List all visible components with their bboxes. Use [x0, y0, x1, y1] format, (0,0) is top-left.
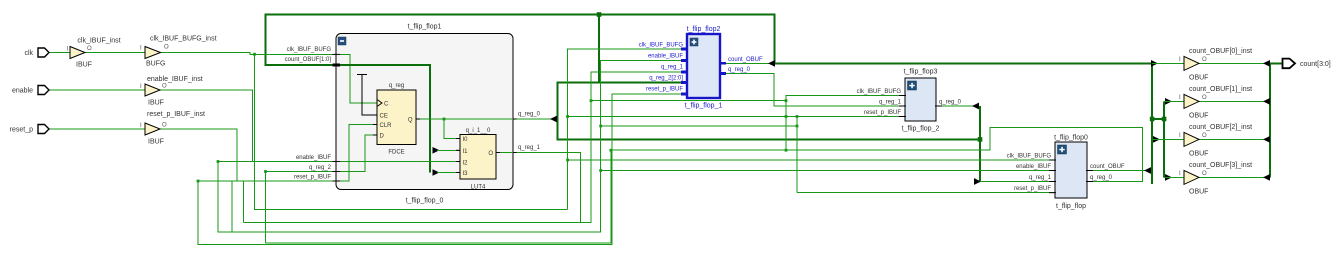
junction riser 797: [796, 115, 799, 118]
svg-text:Q: Q: [408, 118, 413, 124]
wire Q to output and I0: [416, 118, 513, 120]
wire tap to OBUF3: [1164, 176, 1184, 178]
wire count_OBUF of flop2: [720, 62, 770, 64]
svg-text:q_reg_0: q_reg_0: [939, 100, 962, 106]
junction enable: [217, 160, 220, 163]
arrow bus into t_flip_flop0 q_reg_1: [974, 178, 1055, 185]
net OBUF input taps: [1151, 60, 1184, 181]
expand icon: [908, 81, 917, 90]
wire tap to OBUF1: [1164, 100, 1184, 102]
svg-text:I0: I0: [463, 137, 469, 143]
svg-text:clk_IBUF_BUFG: clk_IBUF_BUFG: [1007, 154, 1052, 160]
svg-text:FDCE: FDCE: [388, 150, 404, 156]
junction enable riser for flop0: [599, 169, 602, 172]
svg-text:OBUF: OBUF: [1189, 189, 1208, 196]
svg-text:q_reg_0: q_reg_0: [1090, 175, 1113, 181]
svg-text:OBUF: OBUF: [1189, 113, 1208, 120]
buffer clk_IBUF_BUFG_inst (BUFG): [140, 36, 217, 68]
hierarchical cell t_flip_flop3: [857, 69, 962, 133]
junction A-B connector: [1150, 117, 1155, 122]
svg-text:count_OBUF: count_OBUF: [728, 57, 763, 63]
svg-text:q_reg_1: q_reg_1: [1029, 175, 1052, 181]
net reset_p wires: [49, 94, 687, 245]
port clk: [24, 48, 49, 57]
svg-text:clk: clk: [24, 50, 33, 57]
svg-text:O: O: [1202, 171, 1207, 177]
bus count_OBUF right drop: [775, 14, 1151, 64]
junction riser 797 row 126: [796, 125, 799, 128]
wire OBUF0 out: [1199, 62, 1266, 64]
svg-text:reset_p_IBUF: reset_p_IBUF: [294, 175, 331, 181]
svg-text:reset_p_IBUF_inst: reset_p_IBUF_inst: [147, 111, 205, 118]
svg-text:O: O: [87, 46, 92, 52]
svg-text:q_reg: q_reg: [389, 83, 404, 89]
svg-text:reset_p_IBUF: reset_p_IBUF: [864, 110, 901, 116]
wire enable row stub left: [218, 161, 252, 163]
net clk_IBUF_BUFG : top trunk buses: [266, 12, 1284, 184]
arrow OBUF1 out: [1263, 98, 1270, 105]
svg-text:OBUF: OBUF: [1189, 151, 1208, 158]
buffer enable_IBUF_inst (IBUF): [140, 76, 203, 107]
svg-text:count_OBUF[3]_inst: count_OBUF[3]_inst: [1189, 162, 1252, 169]
arrow q_reg_0 flop3 into bus: [972, 103, 979, 110]
arrow tap I1: [433, 147, 440, 154]
wire clk IBUF to BUFG: [85, 52, 145, 54]
junction q_reg_1 riser row 100.7: [590, 99, 593, 102]
wire tap to I1: [437, 149, 460, 151]
svg-text:enable_IBUF: enable_IBUF: [1016, 164, 1051, 170]
wire row to t_flip_flop0 clk pin: [568, 159, 1055, 161]
arrow OBUF3 out: [1263, 174, 1270, 181]
net t_flip_flop0 count_OBUF out: [1087, 167, 1151, 174]
wire reset IBUF out into t_flip_flop1: [160, 129, 336, 181]
svg-text:CLR: CLR: [380, 123, 393, 129]
junction riser 786 on reset row: [785, 115, 788, 118]
wire tap to I3: [437, 172, 460, 174]
wire enable down around bottom to t_flip_flop2 enable: [218, 61, 687, 233]
wire row to t_flip_flop0 enable pin: [601, 170, 1055, 172]
svg-text:q_reg_2: q_reg_2: [309, 165, 332, 171]
wire Q down to I0: [444, 119, 460, 139]
svg-text:q_reg_1: q_reg_1: [879, 100, 902, 106]
bus inside box down: [340, 65, 430, 173]
hierarchical cell t_flip_flop0: [1007, 135, 1125, 211]
wire bus tap to flop0 q_reg_1: [980, 181, 1055, 183]
port count[3:0] output: [1283, 59, 1331, 69]
wire clk down along bottom: [255, 54, 568, 209]
bus q_reg_2[2:0] drop from top trunk: [598, 15, 600, 83]
svg-text:count_OBUF[1:0]: count_OBUF[1:0]: [285, 57, 332, 63]
net clk wires: [49, 49, 1055, 209]
svg-text:q_reg_1: q_reg_1: [661, 65, 684, 71]
svg-text:t_flip_flop_0: t_flip_flop_0: [406, 198, 444, 205]
hierarchical cell t_flip_flop2 (selected): [639, 26, 763, 110]
svg-text:O: O: [1202, 133, 1207, 139]
svg-text:O: O: [164, 45, 169, 51]
svg-text:I2: I2: [463, 161, 469, 167]
clock wedge on C: [377, 100, 382, 107]
svg-text:enable_IBUF_inst: enable_IBUF_inst: [147, 76, 203, 83]
bus count_OBUF[1:0] drop into t_flip_flop1: [266, 14, 336, 66]
wire q_reg_2 drop to bottom row: [265, 172, 267, 244]
arrow count_OBUF into bus corner: [768, 60, 775, 67]
wire enable inside to I2: [340, 161, 460, 163]
junction reset: [197, 180, 200, 183]
buffer count_OBUF[0]_inst (OBUF): [1179, 48, 1252, 82]
junction bus 985: [978, 137, 983, 142]
svg-text:IBUF: IBUF: [76, 62, 92, 69]
junction riser 786 row 100.7: [785, 99, 788, 102]
bus count_OBUF top trunk: [266, 14, 775, 16]
net q_reg_1 from LUT4 out to t_flip_flop2 q_reg_1: [244, 72, 687, 223]
wire reset row stub left: [198, 180, 237, 182]
svg-text:q_reg_1: q_reg_1: [518, 145, 541, 151]
bus q_reg_2[2:0] into t_flip_flop2: [558, 82, 688, 84]
svg-text:count_OBUF: count_OBUF: [1090, 164, 1125, 170]
collapse icon: [338, 37, 346, 45]
buffer clk_IBUF_inst (IBUF): [67, 38, 121, 69]
wire q_reg_0 of flop3: [936, 105, 975, 107]
svg-text:enable: enable: [12, 88, 33, 95]
wire q_reg_2 into t_flip_flop1: [266, 171, 337, 173]
wire reset inside to CLR: [340, 125, 377, 182]
net t_flip_flop3 output: [936, 103, 979, 110]
svg-text:C: C: [384, 102, 389, 108]
wire row 100.7: [591, 100, 786, 102]
arrow OBUF2 out: [1263, 136, 1270, 143]
wire enable IBUF out into t_flip_flop1: [160, 90, 336, 162]
lut q_i_1__0 (LUT4): [456, 128, 500, 191]
constant tie for CE: [357, 75, 377, 116]
wire clk rise to t_flip_flop2 clk: [568, 49, 687, 209]
wire count_OBUF of flop0: [1087, 170, 1145, 172]
buffer reset_p_IBUF_inst (IBUF): [140, 111, 205, 146]
svg-text:t_flip_flop1: t_flip_flop1: [408, 24, 442, 31]
arrow tap OBUF3: [1165, 174, 1172, 181]
arrow OBUF0 out: [1263, 60, 1270, 67]
wire row to t_flip_flop3 reset_p pin: [568, 116, 905, 118]
arrow q_reg_0 into bus: [550, 116, 557, 123]
bus to output port: [1270, 62, 1284, 64]
svg-text:OBUF: OBUF: [1189, 75, 1208, 82]
arrow tap OBUF0: [1151, 60, 1158, 67]
svg-text:t_flip_flop3: t_flip_flop3: [904, 69, 938, 76]
wire reset down around bottom and up to t_flip_flop2 reset: [198, 94, 687, 245]
svg-text:O: O: [488, 151, 493, 157]
svg-text:t_flip_flop_1: t_flip_flop_1: [685, 103, 723, 110]
svg-text:LUT4: LUT4: [471, 185, 486, 191]
svg-text:O: O: [1202, 95, 1207, 101]
wire loop row to flop0 q_reg_0: [266, 128, 1143, 244]
svg-text:t_flip_flop0: t_flip_flop0: [1054, 135, 1088, 142]
wire tap to OBUF2: [1152, 138, 1184, 140]
bus vertical B right: [1163, 101, 1165, 177]
wire filler row 222.7 left: [244, 222, 581, 224]
svg-text:q_reg_0: q_reg_0: [728, 67, 751, 73]
wire q_reg_0 of flop2 to flop3 q_reg_1: [720, 74, 905, 107]
junction enable riser row 126: [599, 125, 602, 128]
svg-text:I1: I1: [463, 149, 469, 155]
net OBUF outputs into count bus: [1199, 60, 1270, 181]
pin nubs LUT4: [456, 138, 460, 140]
wire enable port to IBUF: [49, 89, 145, 91]
svg-text:clk_IBUF_BUFG_inst: clk_IBUF_BUFG_inst: [150, 36, 217, 43]
svg-text:reset_p: reset_p: [10, 127, 33, 134]
svg-text:count_OBUF[2]_inst: count_OBUF[2]_inst: [1189, 124, 1252, 131]
wire OBUF3 out: [1199, 176, 1266, 178]
svg-text:t_flip_flop_2: t_flip_flop_2: [902, 126, 940, 133]
svg-text:CE: CE: [380, 114, 388, 120]
svg-text:enable_IBUF: enable_IBUF: [296, 155, 331, 161]
svg-text:IBUF: IBUF: [148, 100, 164, 107]
net t_flip_flop2 outputs: [720, 60, 905, 106]
svg-text:count_OBUF[1]_inst: count_OBUF[1]_inst: [1189, 86, 1252, 93]
wire filler vertical 243.7: [243, 181, 245, 223]
pin nubs FDCE: [373, 114, 377, 116]
svg-text:reset_p_IBUF: reset_p_IBUF: [1014, 186, 1051, 192]
wire row 126: [601, 125, 797, 127]
svg-text:q_reg_0: q_reg_0: [518, 112, 541, 118]
wire LUT O to q_reg_1 pin: [496, 152, 513, 154]
svg-text:t_flip_flop: t_flip_flop: [1056, 203, 1086, 210]
hierarchical cell t_flip_flop1 (expanded): [285, 24, 541, 205]
buffer count_OBUF[1]_inst (OBUF): [1179, 86, 1252, 120]
wire riser to t_flip_flop3 clk: [786, 96, 905, 151]
wire q_reg_0 out of box: [513, 118, 551, 120]
junction reset riser row 150: [610, 149, 613, 152]
svg-text:D: D: [380, 134, 385, 140]
buffer count_OBUF[3]_inst (OBUF): [1179, 162, 1252, 196]
net q_reg_2 feedback loop: [264, 128, 1143, 244]
wire row to t_flip_flop0 reset pin: [797, 192, 1055, 194]
svg-text:O: O: [162, 84, 167, 90]
wire filler vertical 231.9: [231, 181, 233, 232]
svg-text:enable_IBUF: enable_IBUF: [648, 54, 683, 60]
arrow tap OBUF2: [1153, 136, 1160, 143]
junction clk riser for flop3 reset row: [566, 115, 569, 118]
wire reset port to IBUF: [49, 128, 145, 130]
svg-text:BUFG: BUFG: [146, 61, 165, 68]
net enable wires: [49, 61, 1055, 233]
bus q_reg_2 long horizontal: [557, 138, 982, 140]
junction riser 786 on row 150: [785, 149, 788, 152]
bus vertical at 985: [979, 106, 981, 182]
expand icon: [690, 38, 698, 46]
svg-text:clk_IBUF_BUFG: clk_IBUF_BUFG: [287, 47, 332, 53]
svg-text:I3: I3: [463, 171, 469, 177]
bus vertical at 557: [557, 82, 559, 140]
svg-text:reset_p_IBUF: reset_p_IBUF: [646, 87, 683, 93]
wire BUFG out to t_flip_flop1 clk pin: [161, 53, 337, 55]
wire riser reset to t_flip_flop0: [796, 117, 798, 193]
svg-text:t_flip_flop2: t_flip_flop2: [687, 26, 721, 33]
svg-text:O: O: [1202, 57, 1207, 63]
junction clk riser for flop0 clk row: [566, 159, 569, 162]
wire clk port to IBUF: [49, 52, 70, 54]
port reset_p: [10, 125, 49, 134]
junction on top trunk: [597, 12, 602, 17]
wire tap to OBUF0: [1152, 62, 1184, 64]
port enable: [12, 86, 49, 95]
bus vertical A right: [1151, 62, 1153, 184]
svg-text:q_reg_2[2:0]: q_reg_2[2:0]: [649, 76, 683, 82]
wire clk inside box: [340, 54, 377, 103]
arrow count_OBUF flop0 into bus A: [1144, 167, 1151, 174]
flip-flop q_reg (FDCE): [373, 83, 420, 156]
svg-text:q_i_1__0: q_i_1__0: [466, 128, 491, 134]
arrow tap I3: [433, 169, 440, 176]
junction q_reg_2 row: [264, 170, 267, 173]
expand icon: [1058, 145, 1067, 154]
wire OBUF1 out: [1199, 100, 1266, 102]
svg-text:clk_IBUF_inst: clk_IBUF_inst: [77, 38, 120, 45]
svg-text:IBUF: IBUF: [148, 139, 164, 146]
junction clk trunk: [253, 53, 256, 56]
arrow tap OBUF1: [1165, 98, 1172, 105]
net q_reg_0 of box to bus tap: [513, 116, 557, 123]
wire OBUF2 out: [1199, 138, 1266, 140]
bus count[3:0] collector: [1269, 63, 1271, 177]
bus connector A-B: [1152, 118, 1164, 120]
svg-text:clk_IBUF_BUFG: clk_IBUF_BUFG: [857, 89, 902, 95]
svg-text:count_OBUF[0]_inst: count_OBUF[0]_inst: [1189, 48, 1252, 55]
svg-text:clk_IBUF_BUFG: clk_IBUF_BUFG: [639, 43, 684, 49]
svg-text:count[3:0]: count[3:0]: [1300, 61, 1331, 68]
svg-text:O: O: [162, 123, 167, 129]
buffer count_OBUF[2]_inst (OBUF): [1179, 124, 1252, 158]
wire q_reg_1 out of box: [513, 72, 687, 223]
wire q_reg_2 inside to D: [340, 135, 377, 172]
